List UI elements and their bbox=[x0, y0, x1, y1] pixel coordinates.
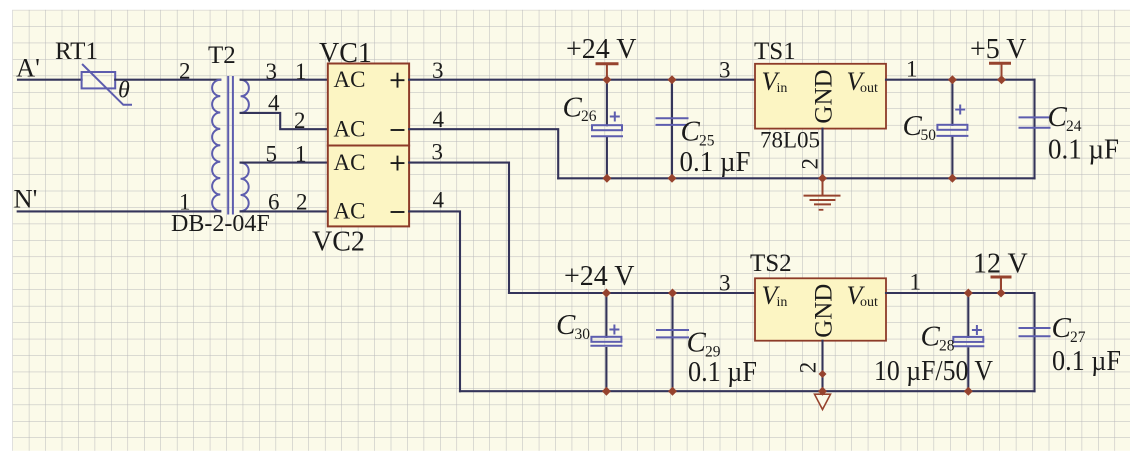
transformer T2 core bbox=[228, 77, 233, 214]
wire TS2 GND pin to rail bbox=[821, 341, 823, 392]
capacitor C26 bbox=[592, 80, 622, 179]
junction dot TS2 ground pin bbox=[819, 370, 827, 378]
junction dot +24V bottom bbox=[602, 289, 611, 298]
capacitor C50 bbox=[937, 80, 967, 179]
svg-text:3: 3 bbox=[719, 58, 731, 83]
wire VC2 pin 3 down to lower +24V row bbox=[409, 163, 509, 293]
wire TS1 output bbox=[886, 79, 1035, 81]
wire N' to T2 pin 1 bbox=[18, 210, 221, 212]
svg-text:+24 V: +24 V bbox=[564, 261, 635, 292]
svg-text:θ: θ bbox=[118, 78, 130, 104]
wire top section ground rail bbox=[558, 177, 1034, 179]
capacitor C30 bbox=[591, 293, 621, 391]
svg-text:C: C bbox=[556, 309, 576, 341]
svg-text:12 V: 12 V bbox=[973, 249, 1028, 280]
svg-text:C: C bbox=[1048, 101, 1068, 133]
wire A' to RT1 bbox=[18, 79, 82, 81]
svg-text:N': N' bbox=[14, 184, 38, 214]
wire T2 pin 5 to VC2 pin 1 bbox=[241, 162, 328, 164]
junction dot C29 top bbox=[668, 289, 677, 298]
svg-text:4: 4 bbox=[433, 188, 445, 213]
svg-text:2: 2 bbox=[798, 158, 823, 170]
svg-text:in: in bbox=[777, 81, 788, 96]
svg-text:C: C bbox=[1052, 312, 1072, 344]
wire RT1 to T2 pin 2 bbox=[115, 79, 220, 81]
power port +24 V top bbox=[566, 34, 637, 79]
capacitor C28 bbox=[953, 293, 983, 391]
capacitor C24 bbox=[1020, 80, 1050, 179]
junction dot C30 bottom bbox=[602, 387, 611, 396]
svg-text:C: C bbox=[903, 110, 923, 142]
junction dot C50 top bbox=[948, 75, 957, 84]
wire bottom section ground rail bbox=[460, 390, 1035, 392]
svg-text:+24 V: +24 V bbox=[566, 34, 637, 65]
svg-text:30: 30 bbox=[575, 326, 591, 343]
junction dot +24V top bbox=[602, 75, 611, 84]
svg-text:28: 28 bbox=[939, 338, 955, 355]
svg-text:AC: AC bbox=[334, 67, 366, 92]
capacitor C25 bbox=[657, 80, 688, 179]
wire lower +24V row to TS2 input bbox=[509, 292, 755, 294]
transformer T2 primary winding bbox=[212, 80, 220, 211]
capacitor C27 bbox=[1020, 293, 1050, 391]
svg-text:DB-2-04F: DB-2-04F bbox=[171, 211, 270, 237]
wire TS2 output bbox=[886, 292, 1035, 294]
wire TS1 GND pin to rail bbox=[821, 129, 823, 179]
svg-text:3: 3 bbox=[719, 271, 731, 296]
junction dot +5V bbox=[997, 75, 1006, 84]
svg-text:C: C bbox=[681, 116, 701, 148]
junction dot 12V bbox=[997, 289, 1006, 298]
svg-text:T2: T2 bbox=[208, 42, 236, 69]
wire T2 pin 6 to VC2 pin 2 bbox=[241, 210, 328, 212]
svg-text:2: 2 bbox=[294, 108, 306, 133]
svg-text:C: C bbox=[687, 327, 707, 359]
svg-text:24: 24 bbox=[1066, 118, 1082, 135]
svg-text:A': A' bbox=[16, 53, 40, 83]
svg-text:out: out bbox=[860, 81, 878, 96]
svg-text:1: 1 bbox=[295, 142, 307, 167]
svg-text:AC: AC bbox=[334, 116, 366, 141]
svg-text:4: 4 bbox=[268, 91, 280, 116]
wire VC1 pin 4 down to top rail bbox=[409, 129, 558, 178]
wire VC2 pin 4 down to bottom rail bbox=[409, 211, 460, 391]
svg-text:VC1: VC1 bbox=[319, 38, 372, 69]
junction dot C28 top bbox=[964, 289, 973, 298]
resistor RT1 (thermistor) bbox=[82, 65, 131, 105]
svg-text:out: out bbox=[860, 295, 878, 310]
svg-text:+5 V: +5 V bbox=[970, 34, 1027, 65]
svg-text:0.1 µF: 0.1 µF bbox=[680, 147, 751, 178]
transformer T2 secondary winding top bbox=[241, 80, 249, 113]
svg-text:78L05: 78L05 bbox=[760, 128, 820, 153]
svg-text:6: 6 bbox=[268, 190, 280, 215]
ground symbol TS1 bbox=[805, 178, 840, 210]
junction dot C26 bottom bbox=[602, 174, 611, 183]
svg-text:AC: AC bbox=[334, 199, 366, 224]
junction dot C29 bottom bbox=[668, 387, 677, 396]
rectifier VC1 bbox=[328, 64, 409, 146]
svg-text:27: 27 bbox=[1070, 329, 1086, 346]
wire VC1 pin 3 to TS1 input bbox=[409, 79, 755, 81]
svg-text:0.1 µF: 0.1 µF bbox=[1048, 135, 1119, 166]
rectifier VC2 bbox=[328, 146, 409, 227]
svg-text:3: 3 bbox=[266, 59, 278, 84]
svg-text:VC2: VC2 bbox=[312, 227, 365, 258]
svg-text:2: 2 bbox=[296, 190, 308, 215]
svg-text:0.1 µF: 0.1 µF bbox=[688, 357, 757, 388]
svg-text:1: 1 bbox=[910, 270, 922, 295]
transformer T2 secondary winding bottom bbox=[241, 163, 249, 212]
regulator TS1 bbox=[755, 64, 886, 129]
svg-text:0.1 µF: 0.1 µF bbox=[1052, 346, 1121, 377]
junction dot C25 top bbox=[668, 75, 677, 84]
svg-text:5: 5 bbox=[266, 142, 278, 167]
svg-text:C: C bbox=[563, 92, 583, 124]
svg-text:26: 26 bbox=[581, 108, 597, 125]
svg-text:in: in bbox=[777, 295, 788, 310]
regulator TS2 bbox=[755, 278, 886, 340]
svg-text:1: 1 bbox=[295, 59, 307, 84]
wire T2 pin 4 to VC1 pin 2 bbox=[241, 113, 328, 129]
capacitor C29 bbox=[657, 293, 688, 391]
svg-text:GND: GND bbox=[811, 284, 838, 338]
svg-text:1: 1 bbox=[179, 190, 191, 215]
svg-text:10 µF/50 V: 10 µF/50 V bbox=[874, 356, 993, 387]
power port +5 V bbox=[970, 34, 1027, 79]
svg-text:4: 4 bbox=[433, 107, 445, 132]
svg-text:GND: GND bbox=[811, 69, 838, 123]
junction dot C28 bottom bbox=[964, 387, 973, 396]
svg-text:2: 2 bbox=[796, 362, 821, 374]
wire T2 pin 3 to VC1 pin 1 bbox=[241, 79, 328, 81]
svg-text:RT1: RT1 bbox=[55, 38, 98, 65]
svg-text:3: 3 bbox=[432, 140, 444, 165]
junction dot TS1 ground rail bbox=[818, 174, 827, 183]
svg-text:3: 3 bbox=[432, 58, 444, 83]
svg-text:TS2: TS2 bbox=[750, 250, 792, 277]
junction dot C50 bottom bbox=[948, 174, 957, 183]
svg-text:2: 2 bbox=[179, 59, 191, 84]
svg-text:50: 50 bbox=[921, 127, 937, 144]
ground arrow symbol TS2 bbox=[815, 394, 831, 409]
junction dot C25 bottom bbox=[668, 174, 677, 183]
power port 12 V bbox=[973, 249, 1028, 294]
junction dot TS2 ground rail bbox=[818, 387, 827, 396]
svg-text:1: 1 bbox=[906, 57, 918, 82]
svg-text:AC: AC bbox=[334, 150, 366, 175]
svg-text:C: C bbox=[921, 321, 941, 353]
svg-text:TS1: TS1 bbox=[754, 38, 796, 65]
